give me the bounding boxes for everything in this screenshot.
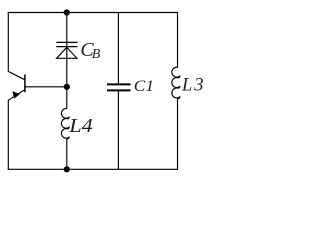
svg-text:B: B [92, 47, 101, 62]
wire left lower vertical [7, 100, 9, 169]
transistor Q1 base bar [24, 74, 26, 92]
transistor Q1 collector diagonal [8, 71, 25, 79]
wire right upper vertical [177, 13, 179, 68]
junction dot top [64, 9, 70, 15]
svg-text:C1: C1 [134, 76, 154, 95]
capacitor C1 bottom plate [107, 89, 131, 91]
varactor diode CB top bar [56, 41, 77, 43]
inductor L4 [61, 109, 69, 139]
wire middle branch (varactor through to mid node) [66, 42, 68, 86]
wire C1 branch lower [117, 90, 119, 169]
junction dot middle [64, 84, 70, 90]
wire bottom horizontal [8, 168, 177, 170]
transistor Q1 emitter arrow [13, 92, 20, 99]
wire left upper vertical [7, 13, 9, 72]
wire mid node down to L4 [66, 87, 68, 109]
wire top horizontal [8, 12, 177, 14]
transistor Q1 base lead wire [25, 86, 67, 88]
inductor L3 [172, 67, 180, 98]
wire L4 bottom to bottom node [66, 139, 68, 170]
svg-text:L4: L4 [68, 115, 93, 137]
wire right lower vertical [177, 98, 179, 169]
varactor diode CB second bar [56, 46, 77, 48]
transistor Q1 emitter diagonal [8, 90, 25, 101]
wire middle branch upper (top wire to varactor) [66, 13, 68, 43]
wire C1 branch upper [117, 13, 119, 85]
junction dot bottom [64, 166, 70, 172]
svg-text:L3: L3 [181, 76, 204, 96]
capacitor C1 top plate [107, 83, 131, 85]
varactor diode CB triangle [57, 47, 77, 58]
